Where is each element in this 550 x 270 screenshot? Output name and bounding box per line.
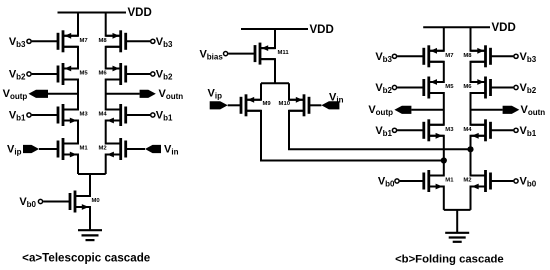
svg-text:M11: M11 xyxy=(278,50,290,56)
svg-text:M8: M8 xyxy=(99,38,108,44)
svg-text:<b>Folding cascade: <b>Folding cascade xyxy=(395,253,504,265)
svg-text:M3: M3 xyxy=(445,127,454,133)
svg-text:M10: M10 xyxy=(279,101,291,107)
svg-text:VDD: VDD xyxy=(492,22,516,34)
svg-text:M9: M9 xyxy=(263,101,272,107)
svg-text:M4: M4 xyxy=(99,112,108,118)
svg-text:M0: M0 xyxy=(92,198,101,204)
svg-text:M8: M8 xyxy=(463,53,472,59)
svg-text:VDD: VDD xyxy=(128,7,152,19)
svg-text:M5: M5 xyxy=(80,71,89,77)
svg-text:M5: M5 xyxy=(445,84,454,90)
svg-text:M2: M2 xyxy=(99,146,108,152)
svg-text:M6: M6 xyxy=(463,84,472,90)
svg-text:M6: M6 xyxy=(99,71,108,77)
svg-text:M1: M1 xyxy=(445,178,454,184)
svg-text:M2: M2 xyxy=(463,178,472,184)
svg-text:<a>Telescopic cascade: <a>Telescopic cascade xyxy=(22,252,151,265)
svg-text:M7: M7 xyxy=(80,38,89,44)
svg-text:M3: M3 xyxy=(80,112,89,118)
svg-text:M7: M7 xyxy=(445,53,454,59)
svg-text:M4: M4 xyxy=(463,127,472,133)
svg-text:M1: M1 xyxy=(80,146,89,152)
svg-text:VDD: VDD xyxy=(310,24,334,36)
